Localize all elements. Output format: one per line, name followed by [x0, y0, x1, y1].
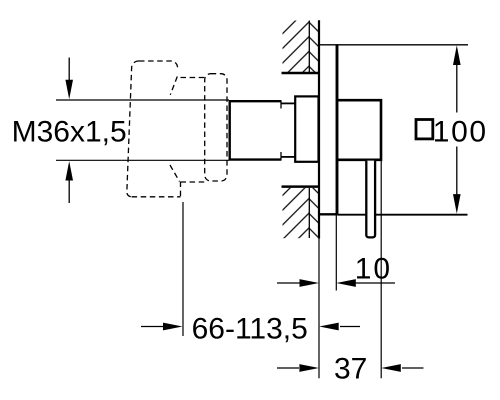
svg-text:10: 10: [355, 253, 392, 286]
svg-text:66-113,5: 66-113,5: [192, 313, 308, 346]
svg-text:M36x1,5: M36x1,5: [12, 115, 127, 148]
svg-text:37: 37: [334, 353, 367, 386]
svg-text:100: 100: [433, 115, 488, 148]
